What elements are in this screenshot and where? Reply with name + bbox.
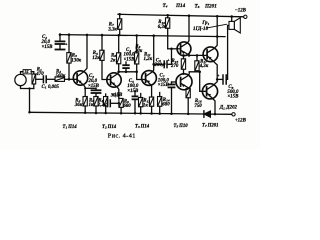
- wire bottom rail: [30, 112, 204, 114]
- wire R17 down: [197, 71, 200, 72]
- node junction: [166, 14, 169, 17]
- wire T4e to T5 base: [189, 54, 207, 56]
- wire box to R1: [31, 72, 34, 74]
- wire T2 collector node: [119, 71, 137, 73]
- svg-text:1,2к: 1,2к: [144, 57, 153, 62]
- svg-text:×15В: ×15В: [42, 45, 54, 50]
- resistor R7: [119, 14, 121, 18]
- wire R2 to T1 base: [65, 78, 78, 80]
- wire T3 emitter: [146, 79, 152, 97]
- wire C6 up: [171, 49, 173, 65]
- node junction: [86, 34, 89, 37]
- svg-text:560к: 560к: [56, 74, 66, 79]
- svg-text:Т6: Т6: [195, 3, 200, 9]
- svg-text:×15В: ×15В: [127, 89, 139, 94]
- resistor R13e: [149, 97, 153, 106]
- wire label pointer: [207, 24, 227, 28]
- wire output node: [217, 78, 222, 80]
- svg-text:Д202: Д202: [225, 106, 237, 111]
- wire T6 collector: [181, 72, 200, 80]
- wire T7 emitter: [207, 93, 215, 114]
- svg-text:12к: 12к: [92, 56, 100, 61]
- microphone B1: [15, 74, 26, 85]
- capacitor C2: [59, 35, 61, 41]
- node junction: [216, 35, 219, 38]
- svg-text:3,3к: 3,3к: [107, 27, 117, 32]
- svg-text:Рис. 4-41: Рис. 4-41: [108, 132, 136, 139]
- resistor R2: [55, 77, 65, 81]
- svg-text:36к: 36к: [74, 103, 83, 108]
- capacitor C5b: [134, 91, 136, 96]
- node junction: [187, 113, 190, 116]
- svg-text:П14: П14: [175, 3, 186, 9]
- svg-text:Т1 П14: Т1 П14: [63, 125, 78, 130]
- svg-text:Д1: Д1: [219, 106, 225, 111]
- wire T5 collector: [207, 16, 217, 52]
- node junction: [188, 54, 191, 57]
- transistor T3: [142, 71, 157, 86]
- svg-text:0,005: 0,005: [48, 85, 60, 90]
- wire T6 emitter: [181, 83, 189, 88]
- svg-text:680: 680: [162, 103, 170, 108]
- wire emitter tap: [85, 87, 96, 89]
- node junction: [118, 102, 121, 105]
- node junction: [84, 112, 87, 115]
- wire speaker top: [231, 17, 233, 22]
- node junction: [135, 71, 138, 74]
- node junction: [28, 111, 31, 114]
- node junction: [216, 15, 219, 18]
- node junction: [139, 112, 142, 115]
- wire T4 collector: [181, 16, 189, 48]
- svg-text:Т7 П201: Т7 П201: [202, 123, 219, 128]
- wire T4 emitter: [181, 50, 189, 55]
- node junction: [28, 87, 30, 89]
- svg-text:680: 680: [123, 104, 131, 109]
- resistor R10: [167, 15, 169, 17]
- svg-text:Т2 П14: Т2 П14: [102, 125, 117, 130]
- svg-text:470: 470: [35, 72, 44, 77]
- node junction: [152, 34, 155, 37]
- svg-text:×15В: ×15В: [158, 83, 170, 88]
- svg-text:Т4: Т4: [163, 3, 168, 9]
- node junction: [216, 78, 219, 81]
- capacitor C7: [171, 82, 173, 84]
- wire T5 emitter: [207, 56, 217, 80]
- wire mid rail: [60, 35, 225, 37]
- wire T2 emitter: [111, 81, 119, 98]
- wire mic top: [21, 72, 24, 75]
- svg-text:Гр1: Гр1: [201, 21, 209, 26]
- transistor T2: [107, 73, 121, 87]
- svg-text:×15В: ×15В: [88, 84, 100, 89]
- node junction: [117, 34, 120, 37]
- wire stub: [105, 94, 107, 97]
- resistor R17: [195, 61, 199, 71]
- resistor R4: [83, 97, 87, 107]
- wire R5 to T2 base: [102, 60, 111, 79]
- wire T6 left lead: [172, 81, 177, 83]
- node junction: [135, 34, 138, 37]
- transistor T5: [203, 47, 218, 62]
- svg-text:П201: П201: [204, 3, 217, 9]
- wire R15 to T6 base: [183, 69, 185, 74]
- capacitor C6: [154, 63, 164, 65]
- node terminal +12V: [232, 113, 235, 116]
- node junction: [84, 87, 86, 89]
- node junction: [150, 112, 153, 115]
- resistor R9e: [119, 98, 123, 107]
- capacitor C4: [125, 62, 127, 65]
- svg-text:1к: 1к: [143, 104, 148, 109]
- speaker Gr1: [229, 21, 234, 29]
- wire R1 bottom: [33, 84, 35, 89]
- node junction: [198, 71, 201, 74]
- wire bottom rail right: [211, 113, 232, 115]
- wire C8 to speaker: [226, 25, 229, 79]
- svg-text:200,0: 200,0: [154, 63, 167, 68]
- diode D1: [204, 111, 211, 117]
- svg-text:6,3к: 6,3к: [158, 25, 167, 30]
- resistor R9: [136, 36, 138, 53]
- node junction: [188, 14, 191, 17]
- wire R1 to C1: [36, 78, 43, 80]
- svg-text:750: 750: [194, 104, 202, 109]
- resistor R3: [68, 35, 70, 53]
- transistor T7: [202, 84, 217, 99]
- resistor R8: [118, 35, 120, 53]
- box mic type: [23, 70, 31, 74]
- svg-text:−12В: −12В: [235, 9, 247, 14]
- wire mic bottom: [21, 86, 34, 89]
- transistor T1: [73, 71, 87, 85]
- svg-text:+12В: +12В: [235, 118, 247, 123]
- node junction: [170, 48, 173, 51]
- svg-text:1Б: 1Б: [24, 70, 29, 74]
- svg-text:2,2к: 2,2к: [97, 103, 107, 108]
- svg-text:2к: 2к: [110, 58, 116, 63]
- transistor T4: [177, 42, 191, 56]
- wire top rail: [118, 14, 244, 16]
- node junction: [118, 13, 121, 16]
- svg-text:×15В: ×15В: [111, 93, 123, 98]
- node junction: [170, 112, 173, 115]
- node junction: [59, 33, 62, 36]
- svg-text:×15В: ×15В: [124, 57, 136, 62]
- svg-text:С1: С1: [42, 85, 47, 90]
- svg-text:130к: 130к: [71, 58, 81, 63]
- node junction: [230, 15, 233, 18]
- svg-text:×15В: ×15В: [227, 95, 239, 100]
- wire C1 to R2: [46, 78, 55, 80]
- node junction: [134, 112, 137, 115]
- node junction: [182, 54, 185, 57]
- resistor R6: [94, 97, 98, 107]
- resistor R15: [181, 59, 185, 70]
- wire R9 to T3 base: [137, 64, 146, 80]
- node junction: [152, 63, 155, 66]
- wire T1 emitter: [77, 79, 85, 96]
- node junction: [158, 112, 161, 115]
- node junction: [68, 78, 71, 81]
- wire T1 collector: [77, 35, 87, 77]
- capacitor C1: [42, 76, 44, 83]
- capacitor C5: [106, 102, 108, 104]
- svg-text:20к: 20к: [134, 49, 143, 54]
- node junction: [196, 54, 199, 57]
- wire R10 to T4 base: [168, 48, 181, 50]
- resistor R5: [101, 35, 103, 50]
- node junction: [68, 33, 71, 36]
- svg-text:1ГД-18: 1ГД-18: [193, 27, 208, 32]
- resistor R6b: [104, 97, 108, 107]
- wire T3 collector: [146, 36, 154, 77]
- transistor T6: [176, 74, 192, 90]
- resistor R1: [32, 74, 36, 84]
- svg-text:Т3 П14: Т3 П14: [135, 124, 150, 129]
- wire T6 to T7 base: [200, 72, 207, 92]
- svg-text:270: 270: [170, 64, 179, 69]
- capacitor C8: [222, 75, 224, 84]
- wire T2 collector: [111, 64, 119, 79]
- svg-text:Т5 П10: Т5 П10: [174, 124, 189, 129]
- resistor R14b: [158, 97, 162, 107]
- node junction: [104, 112, 107, 115]
- resistor R12b: [139, 98, 143, 107]
- node junction: [120, 112, 123, 115]
- capacitor C3: [92, 89, 101, 91]
- resistor R16: [186, 89, 190, 98]
- node junction: [117, 71, 120, 74]
- node terminal -12V: [244, 15, 247, 18]
- wire ground drop: [29, 89, 31, 113]
- node junction: [101, 34, 104, 37]
- wire T7 collector: [207, 79, 218, 89]
- svg-text:1к: 1к: [89, 103, 94, 108]
- node junction: [125, 71, 128, 74]
- node junction: [95, 112, 98, 115]
- svg-text:4,3к: 4,3к: [199, 64, 209, 69]
- node junction: [214, 113, 217, 116]
